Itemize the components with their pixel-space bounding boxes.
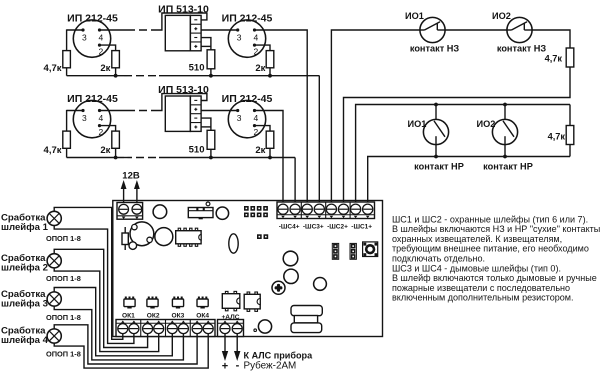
svg-text:4,7к: 4,7к (545, 54, 563, 64)
wire: lamp 1 to ОК1 terminal (b) (54, 225, 134, 343)
svg-text:ОПОП 1-8: ОПОП 1-8 (46, 274, 81, 283)
svg-text:ИП 212-45: ИП 212-45 (67, 93, 118, 105)
svg-text:2к: 2к (255, 145, 265, 156)
pin 4 (98, 28, 101, 31)
svg-text:2к: 2к (255, 63, 265, 74)
wire: EOL branch down ШС3 (66, 29, 68, 50)
smoke detector ИП 212-45 #1 of ШС3 (67, 13, 127, 58)
body (165, 15, 190, 50)
smoke detector ИП 212-45 #2 of ШС4 (201, 93, 283, 205)
screw terminal (132, 204, 142, 214)
capacitor C1 (130, 222, 154, 246)
mounting hole (216, 207, 228, 219)
screw terminal (220, 324, 230, 334)
mounting hole (258, 320, 271, 333)
screw terminal (302, 204, 312, 214)
svg-text:контакт НЗ: контакт НЗ (410, 43, 460, 53)
screw terminal (326, 204, 336, 214)
svg-text:шлейфа 1: шлейфа 1 (1, 222, 49, 233)
svg-text:-ШС1+: -ШС1+ (351, 224, 372, 231)
wire: lamp 3 to ОК3 terminal (b) (54, 306, 183, 360)
resistor 4,7к (ШС2 end-of-line) (566, 48, 574, 67)
wire pin4 out to terminal (255, 30, 308, 205)
arrow АЛС - output (236, 333, 238, 355)
svg-text:2: 2 (254, 46, 259, 56)
svg-text:4,7к: 4,7к (44, 145, 62, 156)
svg-text:-: - (236, 360, 240, 372)
wire: bus down to terminal ШС3+ (318, 76, 320, 205)
terminal - (194, 117, 197, 119)
svg-text:4: 4 (99, 32, 104, 42)
smoke detector ИП 212-45 #1 of ШС4 (67, 93, 127, 138)
screw terminal (278, 204, 288, 214)
connector X1 (291, 306, 322, 333)
svg-text:ИП 212-45: ИП 212-45 (67, 13, 118, 25)
tamper button SW1 (363, 242, 378, 257)
svg-text:ОПОП 1-8: ОПОП 1-8 (46, 313, 81, 322)
junction dot (268, 74, 272, 78)
junction dot 2к/bus (114, 74, 118, 78)
resistor 2к (detector 2 of ШС3) (266, 51, 274, 68)
pin 4 (253, 109, 256, 112)
screw terminal (154, 324, 164, 334)
svg-text:4: 4 (254, 113, 259, 123)
transistor Q2 (147, 297, 158, 309)
svg-text:включенным дополнительным рези: включенным дополнительным резистором. (392, 293, 574, 303)
wire: ШС2 loop left drop to terminal (331, 30, 420, 205)
test point (254, 329, 257, 332)
svg-text:ИО2: ИО2 (492, 11, 511, 21)
resistor 510 (ШС3) (207, 50, 215, 69)
contact blade (507, 29, 512, 31)
svg-text:ИО2: ИО2 (477, 119, 496, 129)
pin header J2 (332, 243, 338, 259)
svg-text:2к: 2к (100, 63, 110, 74)
svg-text:ИП 212-45: ИП 212-45 (222, 13, 273, 25)
junction dot 510/bus (209, 156, 213, 160)
junction dot bottom (434, 155, 438, 159)
svg-text:ИО1: ИО1 (405, 11, 424, 21)
transistor Q4 (197, 297, 208, 309)
mounting hole (314, 278, 327, 291)
wire pin4 out (100, 110, 128, 112)
svg-text:-ШС3+: -ШС3+ (303, 224, 324, 231)
optocoupler U3 (222, 291, 240, 310)
mounting hole (284, 269, 298, 283)
svg-text:3: 3 (237, 113, 242, 123)
junction dot bottom (503, 155, 507, 159)
screw terminal (338, 204, 348, 214)
contact blade (503, 121, 514, 137)
pin 3 (236, 28, 239, 31)
arrow +12V supply left (123, 184, 125, 202)
junction dot 510/bus (209, 74, 213, 78)
svg-text:510: 510 (189, 144, 205, 155)
transistor Q1 (124, 297, 135, 309)
terminal + (194, 126, 197, 128)
svg-text:контакт НР: контакт НР (483, 162, 533, 172)
jumper JP2 (257, 234, 268, 239)
svg-text:+: + (222, 361, 228, 373)
svg-text:ОПОП 1-8: ОПОП 1-8 (46, 234, 81, 243)
svg-text:4: 4 (254, 32, 259, 42)
wire stub bottom (504, 145, 506, 157)
wire: bus down to terminal ШС4+ (294, 158, 296, 206)
screw head (272, 281, 285, 294)
screw terminal (351, 204, 361, 214)
resistor 4,7к (end-of-line ШС4) (63, 131, 71, 148)
pin 3 (236, 109, 239, 112)
transistor Q3 (172, 297, 183, 309)
svg-text:3: 3 (82, 32, 87, 42)
screw terminal (192, 324, 202, 334)
svg-text:требующим внешнее питание, его: требующим внешнее питание, его необходим… (392, 244, 589, 254)
wire cell3/cell4 to 510 resistor (201, 118, 211, 130)
detector body circle (228, 20, 265, 57)
pin 3 (81, 109, 84, 112)
security detector ИО2 contact НР (477, 103, 533, 172)
pin 2 (98, 124, 101, 127)
svg-text:охранных извещателей. К извеща: охранных извещателей. К извещателям, (392, 234, 562, 244)
wire: ШС2 return to terminal (344, 67, 571, 205)
screw terminal (129, 324, 139, 334)
wire pin2 to 2к (255, 45, 271, 51)
resistor 4,7к (end-of-line ШС3) (63, 51, 71, 68)
wire: lamp 4 to ОК4 terminal (a) (54, 325, 197, 364)
terminal + (194, 108, 197, 110)
note text block about loops (392, 214, 600, 302)
svg-text:шлейфа 3: шлейфа 3 (1, 298, 48, 309)
screw terminal (290, 204, 300, 214)
wire: ШС1 top rail (356, 105, 570, 206)
screw terminal (232, 324, 242, 334)
wire: dashed continuation top (127, 29, 159, 31)
indicator lamp ОПОП 1-8 #2 (47, 254, 61, 268)
svg-text:ОК4: ОК4 (196, 312, 209, 319)
optocoupler U4 (244, 292, 260, 311)
pin 2 (98, 44, 101, 47)
svg-text:-ШС2+: -ШС2+ (327, 224, 348, 231)
svg-text:подключать отдельно.: подключать отдельно. (392, 254, 485, 264)
terminal + (194, 45, 197, 47)
wire pin2 to 2к (100, 45, 116, 51)
wire: loop ШС4 into pin 3 (67, 110, 83, 112)
svg-text:ОК3: ОК3 (171, 312, 184, 319)
wire: dashed continuation top (127, 110, 159, 112)
wire stub bottom (435, 145, 437, 157)
junction dot top (434, 103, 438, 107)
crystal Y1 (122, 227, 128, 250)
svg-text:+АЛС: +АЛС (221, 314, 239, 321)
terminal + (194, 28, 197, 30)
junction dot (268, 156, 272, 160)
screw terminal (143, 324, 153, 334)
svg-text:К АЛС прибора: К АЛС прибора (244, 351, 314, 361)
pin header J3 (350, 243, 356, 259)
arrow АЛС + output (224, 333, 226, 355)
pin 4 (98, 109, 101, 112)
pin 4 (253, 28, 256, 31)
indicator lamp ОПОП 1-8 #4 (47, 329, 61, 343)
wire: loop over call point (159, 94, 207, 111)
resistor 2к (detector 1 of ШС3) (112, 51, 120, 68)
detector body circle (228, 100, 265, 137)
capacitor C4 (electrolytic) (229, 234, 238, 253)
svg-text:12В: 12В (122, 171, 140, 182)
screw terminal (119, 204, 129, 214)
terminal block ШС1..ШС4 (277, 202, 375, 219)
wire: call point to pin 3 (201, 29, 238, 31)
resistor 4,7к (ШС1 end-of-line) (569, 105, 571, 126)
svg-text:-ШС4+: -ШС4+ (279, 224, 300, 231)
wire pin2 to 2к (255, 126, 271, 132)
contact blade (434, 121, 445, 137)
body (165, 96, 190, 131)
wire: loop over call point (159, 13, 207, 30)
screw terminal (178, 324, 188, 334)
svg-text:ШС3 и ШС4 - дымовые шлейфы (ти: ШС3 и ШС4 - дымовые шлейфы (тип 0). (392, 263, 561, 273)
svg-text:шлейфа 4: шлейфа 4 (1, 335, 49, 346)
resistor 510 (ШС4) (207, 130, 215, 149)
svg-text:510: 510 (189, 63, 205, 74)
svg-text:2: 2 (254, 127, 259, 137)
wire: lamp 2 to ОК2 terminal (a) (54, 249, 147, 347)
svg-text:2к: 2к (100, 145, 110, 156)
screw terminal (314, 204, 324, 214)
svg-text:4: 4 (99, 113, 104, 123)
indicator lamp ОПОП 1-8 #1 (47, 211, 61, 225)
mounting hole (153, 205, 167, 219)
contact blade (420, 29, 425, 31)
circuit board Рубеж-2АМ outline (113, 201, 383, 337)
wire: between НЗ contacts (445, 29, 507, 31)
pin 2 (253, 44, 256, 47)
terminal block ОК1..ОК4 (116, 320, 215, 337)
svg-text:2: 2 (99, 127, 104, 137)
smoke detector ИП 212-45 #2 of ШС3 (201, 13, 307, 206)
manual call point ИП 513-10 (ШС3) (158, 3, 211, 51)
terminal - (194, 19, 197, 21)
svg-text:ОПОП 1-8: ОПОП 1-8 (46, 350, 81, 359)
wire stub top (504, 105, 506, 120)
terminal block АЛС (218, 320, 244, 337)
manual call point ИП 513-10 (ШС4) (158, 84, 211, 131)
wire: bottom bus ШС3 (67, 75, 124, 77)
screw terminal (363, 204, 373, 214)
security detector ИО1 contact НЗ (405, 11, 459, 53)
test point (206, 202, 210, 206)
pin 2 (253, 124, 256, 127)
svg-text:3: 3 (237, 32, 242, 42)
svg-text:В шлейф включаются только дымо: В шлейф включаются только дымовые и ручн… (392, 273, 597, 283)
svg-text:В шлейфы включаются НЗ и НР "с: В шлейфы включаются НЗ и НР "сухие" конт… (392, 224, 600, 234)
svg-text:ИП 212-45: ИП 212-45 (222, 93, 273, 105)
detector body circle (73, 100, 110, 137)
svg-text:ИП 513-10: ИП 513-10 (158, 84, 209, 96)
arrow +12V supply right (136, 184, 138, 202)
op-amp U2 (DIP-8) (176, 228, 201, 246)
mounting hole (283, 251, 298, 266)
svg-text:4,7к: 4,7к (548, 132, 566, 142)
svg-text:ОК2: ОК2 (147, 312, 160, 319)
wire: EOL branch down ШС4 (66, 110, 68, 131)
svg-text:ОК1: ОК1 (122, 312, 135, 319)
svg-text:ШС1 и ШС2 - охранные шлейфы (т: ШС1 и ШС2 - охранные шлейфы (тип 6 или 7… (392, 214, 588, 224)
svg-text:пожарные извещатели с последов: пожарные извещатели с последовательно (392, 283, 570, 293)
terminal block 12В power input (117, 203, 143, 220)
screw terminal (167, 324, 177, 334)
resistor 2к (detector 2 of ШС4) (266, 131, 274, 148)
junction dot top (503, 103, 507, 107)
indicator lamp ОПОП 1-8 #3 (47, 292, 61, 306)
wire: lamp 3 to ОК3 terminal (a) (54, 288, 172, 356)
wire cell3/cell4 to 510 resistor (201, 38, 211, 50)
terminal - (194, 37, 197, 39)
wire: ШС1 bottom rail (368, 157, 570, 206)
wire: bottom bus ШС4 (67, 157, 124, 159)
wire pin4 out (100, 29, 128, 31)
svg-text:ИП 513-10: ИП 513-10 (158, 3, 209, 15)
wire pin2 to 2к (100, 126, 116, 132)
wire: lamp 2 to ОК2 terminal (b) (54, 267, 159, 351)
svg-text:шлейфа 2: шлейфа 2 (1, 262, 48, 273)
wire: call point to pin 3 (201, 110, 238, 112)
svg-text:Рубеж-2АМ: Рубеж-2АМ (244, 361, 297, 372)
svg-text:контакт НЗ: контакт НЗ (497, 43, 547, 53)
wire: lamp 1 to ОК1 terminal (a) (54, 207, 123, 339)
screw terminal (118, 324, 128, 334)
screw terminal (203, 324, 213, 334)
wire: lamp 4 to ОК4 terminal (b) (54, 333, 208, 368)
terminal - (194, 99, 197, 101)
junction dot 2к/bus (114, 156, 118, 160)
svg-text:2: 2 (99, 46, 104, 56)
resistor 2к (detector 1 of ШС4) (112, 131, 120, 148)
svg-text:ИО1: ИО1 (408, 119, 427, 129)
svg-text:3: 3 (82, 113, 87, 123)
wire: loop ШС3 into pin 3 (67, 29, 83, 31)
pin 3 (81, 28, 84, 31)
wire stub top (435, 105, 437, 120)
svg-text:контакт НР: контакт НР (414, 162, 464, 172)
detector body circle (73, 20, 110, 57)
svg-text:4,7к: 4,7к (44, 63, 62, 74)
wire: НЗ right to resistor (532, 30, 570, 48)
security detector ИО1 contact НР (408, 103, 464, 172)
jumper block JP1 (244, 206, 268, 217)
relay K1 (188, 208, 213, 220)
security detector ИО2 contact НЗ (492, 11, 546, 53)
capacitor C3 (155, 228, 173, 246)
capacitor C2 (129, 242, 137, 250)
wire pin4 out to terminal (255, 111, 284, 206)
